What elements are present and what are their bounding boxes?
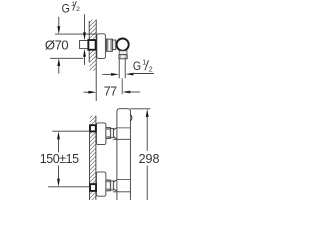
svg-text:G: G (62, 2, 70, 16)
dimension 150±15 arrows (57, 131, 60, 187)
svg-text:298: 298 (139, 152, 160, 166)
wall left edge lower (89, 125, 91, 200)
svg-text:77: 77 (104, 84, 117, 98)
wall right edge upper + 77 extension line (95, 20, 97, 102)
wall elbow box upper connection (90, 125, 96, 131)
svg-text:Ø70: Ø70 (45, 37, 69, 52)
dimension G1/2 right arrows (102, 73, 154, 76)
outlet piece below circle (119, 51, 127, 55)
escutcheon upper connection (96, 123, 106, 145)
wall left edge upper (88, 21, 90, 62)
thermostat body circle top view (117, 39, 129, 51)
wall elbow box left (88, 40, 95, 50)
svg-text:1: 1 (142, 59, 146, 66)
label G1/2 right (133, 59, 153, 73)
wall hatch lower (90, 116, 96, 201)
svg-text:2: 2 (76, 6, 80, 13)
boss circle upper connection (113, 128, 124, 139)
faucet body front (rotated) view (117, 109, 130, 200)
union nut lower connection (106, 180, 114, 191)
pipe centerline extension (121, 78, 123, 94)
svg-text:2: 2 (149, 66, 153, 73)
outlet pipe lines (119, 59, 125, 78)
outlet nut (119, 55, 127, 59)
union nut upper connection (106, 128, 114, 139)
dimension 298 line and arrow (146, 109, 149, 200)
wall elbow box lower connection (90, 184, 96, 191)
G1/2 arrow up at pipe bottom (83, 49, 86, 65)
stub pipe left of wall (80, 41, 89, 49)
G1/2 leader arrow down (83, 14, 86, 40)
dimension 77 (84, 91, 141, 94)
safety stop bump (130, 115, 132, 121)
svg-text:G: G (133, 59, 141, 73)
boss circle lower connection (113, 180, 124, 191)
escutcheon lower connection (96, 172, 106, 196)
label G1/2 left (62, 1, 81, 16)
wall right edge lower (95, 116, 97, 201)
svg-text:150±15: 150±15 (40, 152, 79, 166)
body joint lines (113, 128, 130, 192)
dimension 150±15 extension lines (48, 131, 90, 187)
dimension 298 extension line (130, 108, 150, 110)
wall hatch upper (89, 20, 96, 102)
dimension Ø70 extension lines (50, 34, 97, 58)
dimension Ø70 arrows (57, 17, 60, 74)
escutcheon top view (97, 34, 106, 59)
union nut top view (106, 39, 115, 51)
